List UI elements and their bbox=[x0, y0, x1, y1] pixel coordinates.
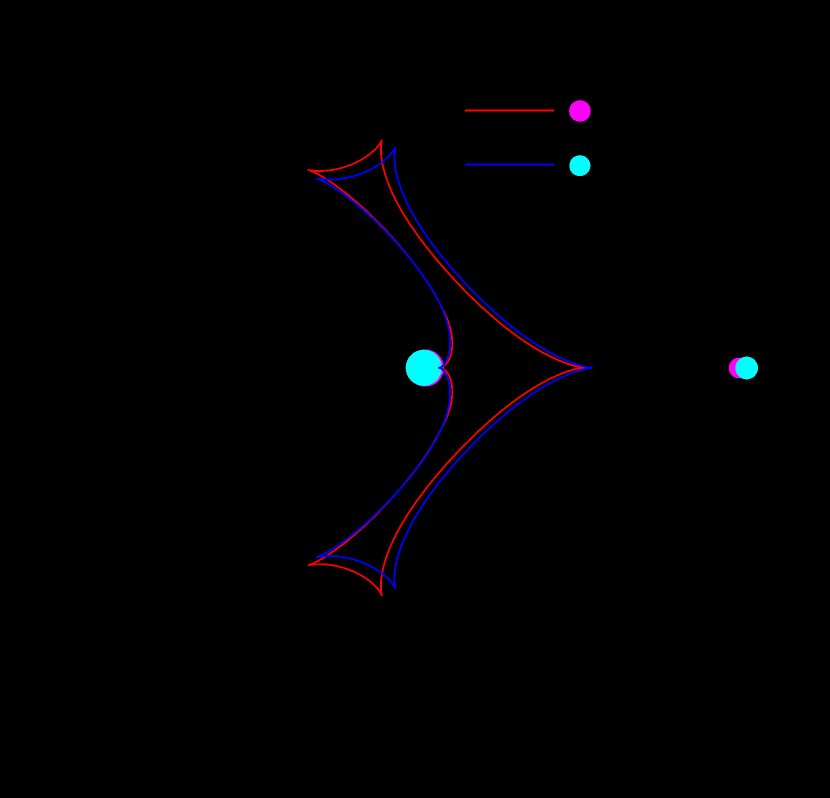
caustic curve model 2 (blue) bbox=[317, 147, 593, 588]
secondary lens marker model 1 (magenta) bbox=[729, 358, 750, 379]
primary lens marker model 2 (cyan, front) bbox=[406, 350, 442, 386]
caustic curve model 1 (red) bbox=[309, 141, 585, 596]
legend line model 2 (blue) bbox=[465, 164, 554, 166]
secondary lens marker model 2 (cyan) bbox=[735, 357, 758, 380]
legend marker model 2 (cyan) bbox=[569, 155, 590, 176]
primary lens marker model 1 (magenta, behind) bbox=[407, 349, 444, 386]
legend marker model 1 (magenta) bbox=[569, 100, 591, 122]
legend line model 1 (red) bbox=[465, 110, 554, 112]
